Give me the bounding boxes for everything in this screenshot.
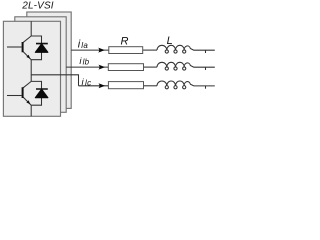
svg-text:L: L: [167, 35, 173, 47]
svg-text:lb: lb: [83, 58, 90, 67]
svg-text:la: la: [81, 41, 88, 50]
svg-text:R: R: [121, 35, 129, 47]
svg-text:lc: lc: [85, 78, 91, 87]
svg-text:2L-VSI: 2L-VSI: [21, 1, 54, 12]
